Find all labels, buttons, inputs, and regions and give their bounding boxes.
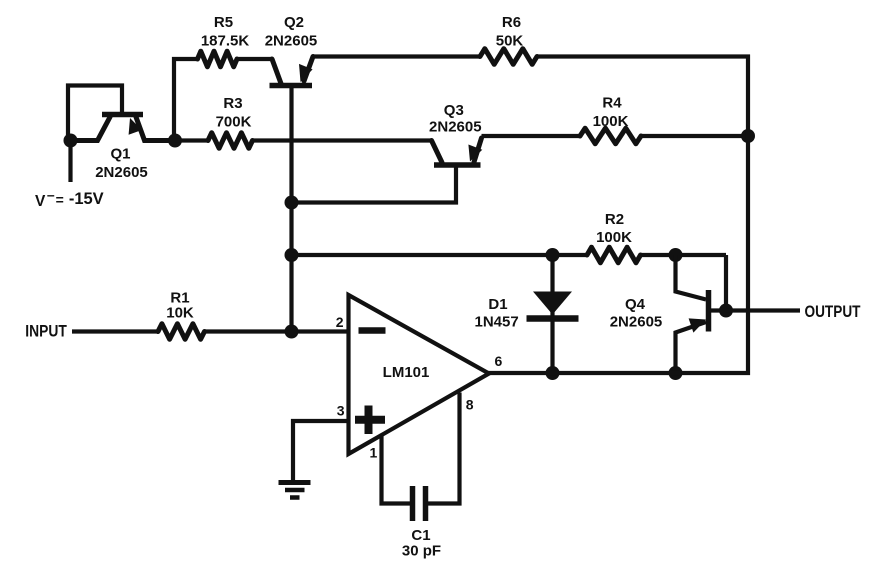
svg-text:100K: 100K [593,113,629,130]
svg-text:2N2605: 2N2605 [429,119,482,136]
op-amp plus input [355,406,385,435]
op-amp minus input [359,327,386,334]
svg-text:Q3: Q3 [444,102,464,119]
svg-text:2N2605: 2N2605 [610,314,663,331]
wire Q4 base node vertical [724,255,728,311]
wire Q3 emitter to R4 [482,134,581,138]
svg-text:6: 6 [495,353,503,369]
wire V- lead [68,141,72,183]
wire right rail [676,55,749,374]
label C1 value [402,527,441,560]
label R6 value [496,14,524,50]
label Q3 value [429,102,482,136]
wire op-amp output row [487,371,677,375]
wire R2 to Q4 collector node [641,253,727,257]
pin 2 [336,314,344,330]
node summing junction [285,325,299,339]
power V- = -15V [35,187,104,211]
node rail-Q3 base junction [285,196,299,210]
resistor R3 [208,133,253,149]
svg-text:Q1: Q1 [110,146,130,163]
label R1 value [166,290,194,322]
node Q4 emitter junction [669,366,683,380]
resistor R6 [480,49,537,65]
wire pin 3 lead [293,421,349,481]
svg-text:R6: R6 [502,14,521,31]
label OUTPUT [805,302,861,321]
svg-text:10K: 10K [166,305,194,322]
diode D1 [527,255,579,373]
svg-text:R3: R3 [223,95,242,112]
svg-text:8: 8 [466,397,474,413]
svg-text:30 pF: 30 pF [402,543,441,560]
op-amp U1 LM101 [349,295,490,454]
svg-text:2N2605: 2N2605 [265,33,318,50]
svg-text:Q4: Q4 [625,296,646,313]
wire R5 left vertical [174,59,198,141]
label Q2 value [265,14,318,50]
wire R6 to right rail [537,54,750,58]
svg-text:100K: 100K [596,229,632,246]
node Q4 collector junction [669,248,683,262]
pin 1 [370,445,378,461]
wire output lead [726,308,800,312]
wire Q2 emitter to R6 [313,54,480,58]
transistor Q2 [270,57,314,86]
transistor Q3 [298,138,482,203]
wire R2 row left [292,253,588,257]
ground [279,483,311,498]
wire Q2 base rail [289,88,293,332]
resistor R4 [580,128,641,144]
svg-text:OUTPUT: OUTPUT [805,302,861,321]
label R2 value [596,211,632,246]
pin 8 [466,397,474,413]
label R5 value [201,14,250,50]
label Q1 value [95,146,148,182]
wire C1 to pin 8 [428,393,460,504]
svg-text:3: 3 [337,403,345,419]
node D1 cathode junction [546,366,560,380]
svg-text:1: 1 [370,445,378,461]
label R4 value [593,95,629,131]
wire R5 to Q2 [237,57,272,61]
svg-text:2: 2 [336,314,344,330]
transistor Q1 [68,86,175,142]
wire pin 1 to C1 [382,435,411,504]
label R3 value [216,95,252,131]
wire R1 to op-amp [205,329,349,333]
resistor R1 [158,324,205,340]
svg-text:INPUT: INPUT [25,322,67,341]
wire R4 to right rail [641,134,748,138]
svg-text:R2: R2 [605,211,624,228]
svg-text:LM101: LM101 [383,364,430,381]
svg-text:R5: R5 [214,14,233,31]
svg-text:R4: R4 [602,95,622,112]
pin 6 [495,353,503,369]
label Q4 value [610,296,663,331]
capacitor C1 [413,486,426,521]
label INPUT [25,322,67,341]
resistor R5 [198,51,238,67]
resistor R2 [587,247,641,263]
svg-text:C1: C1 [411,527,430,544]
svg-text:D1: D1 [488,296,507,313]
node rail-R2 junction [285,248,299,262]
svg-text:700K: 700K [216,114,252,131]
transistor Q4 [676,255,727,373]
svg-text:V–=-15V: V–=-15V [35,187,104,211]
node R4-rail junction [741,129,755,143]
node R5-R3-Q1 junction [168,134,182,148]
label D1 value [474,296,518,331]
node Q4 base-output junction [719,304,733,318]
svg-text:50K: 50K [496,33,524,50]
pin 3 [337,403,345,419]
node D1 anode junction [546,248,560,262]
svg-text:1N457: 1N457 [474,314,518,331]
svg-text:2N2605: 2N2605 [95,164,148,181]
wire R3 to Q3 [253,138,433,142]
wire input lead [72,329,158,333]
wire Q1 emitter to R3 [175,138,208,142]
svg-text:187.5K: 187.5K [201,33,250,50]
node Q1 collector junction [64,134,78,148]
svg-text:Q2: Q2 [284,14,304,31]
